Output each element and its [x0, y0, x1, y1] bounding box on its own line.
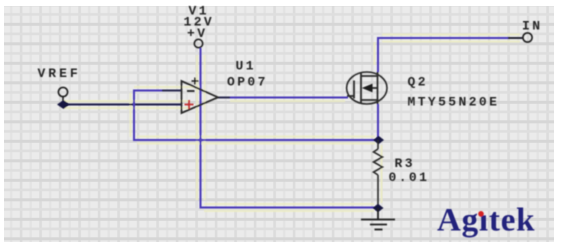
wire: VREF to op-amp non-inverting input: [63, 104, 181, 106]
op-amp U1: [182, 78, 219, 114]
drain-source bus: [377, 76, 379, 100]
wire: bottom rail from op-amp V- to ground node: [200, 207, 379, 209]
power terminal +V (V1 12V): [184, 4, 215, 48]
wire: MOSFET source down to R3 top node: [377, 104, 379, 140]
gate bar: [353, 81, 355, 99]
node: VREF junction: [57, 100, 70, 109]
logo Agitek: [437, 203, 535, 239]
resistor R3: [374, 140, 383, 208]
node: feedback / source junction: [373, 136, 384, 144]
source branch: [361, 100, 378, 104]
terminal IN: [508, 19, 542, 43]
svg-text:Agıtek: Agıtek: [437, 203, 535, 239]
wire: MOSFET drain up and across to IN terminal: [378, 38, 523, 72]
svg-text:Q2: Q2: [408, 75, 428, 90]
svg-text:VREF: VREF: [38, 66, 81, 81]
svg-text:U1: U1: [236, 59, 256, 74]
svg-text:R3: R3: [395, 156, 415, 171]
node: ground junction: [373, 204, 384, 212]
pin marker: non-inverting input plus (red): [185, 100, 194, 109]
body branch with arrow: [372, 87, 378, 89]
svg-text:OP07: OP07: [227, 75, 268, 90]
pin marker: inverting input minus: [187, 90, 195, 92]
svg-text:IN: IN: [522, 19, 542, 34]
transistor Q2 (MOSFET): [347, 72, 387, 104]
wire: output pin stub: [217, 97, 230, 99]
gate lead: [347, 95, 354, 97]
wire: +V supply down through op-amp to bottom rail: [200, 48, 202, 208]
svg-text:0.01: 0.01: [389, 170, 430, 185]
wire: inverting input to feedback branch: [134, 91, 378, 141]
terminal VREF: [38, 66, 81, 102]
svg-text:MTY55N20E: MTY55N20E: [408, 95, 500, 110]
drain branch: [361, 72, 378, 76]
wire: op-amp output to MOSFET gate: [229, 97, 348, 99]
ground: [361, 208, 395, 230]
pin marker: V+ supply plus: [192, 78, 199, 85]
channel bar: [360, 73, 362, 103]
wire: inverting input pin stub: [162, 90, 181, 92]
